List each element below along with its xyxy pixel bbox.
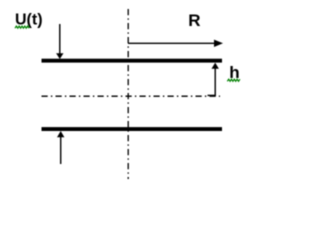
label U(t) <box>15 12 43 29</box>
dimension arrow h up to top plate <box>212 63 219 96</box>
horizontal dash-dot centerline <box>42 95 221 97</box>
svg-text:R: R <box>188 11 200 30</box>
spellcheck squiggle under h <box>227 79 240 81</box>
vertical dash-dot centerline <box>127 9 129 179</box>
arrow U(t) down to top plate <box>56 24 63 59</box>
label h <box>229 63 239 82</box>
top plate <box>42 59 223 63</box>
label R <box>188 11 200 30</box>
dimension h base foot <box>208 94 216 96</box>
spellcheck squiggle under U(t) <box>15 26 29 28</box>
arrow up to bottom plate <box>57 131 64 164</box>
arrow R rightward from centerline <box>128 40 223 47</box>
bottom plate <box>42 127 223 131</box>
